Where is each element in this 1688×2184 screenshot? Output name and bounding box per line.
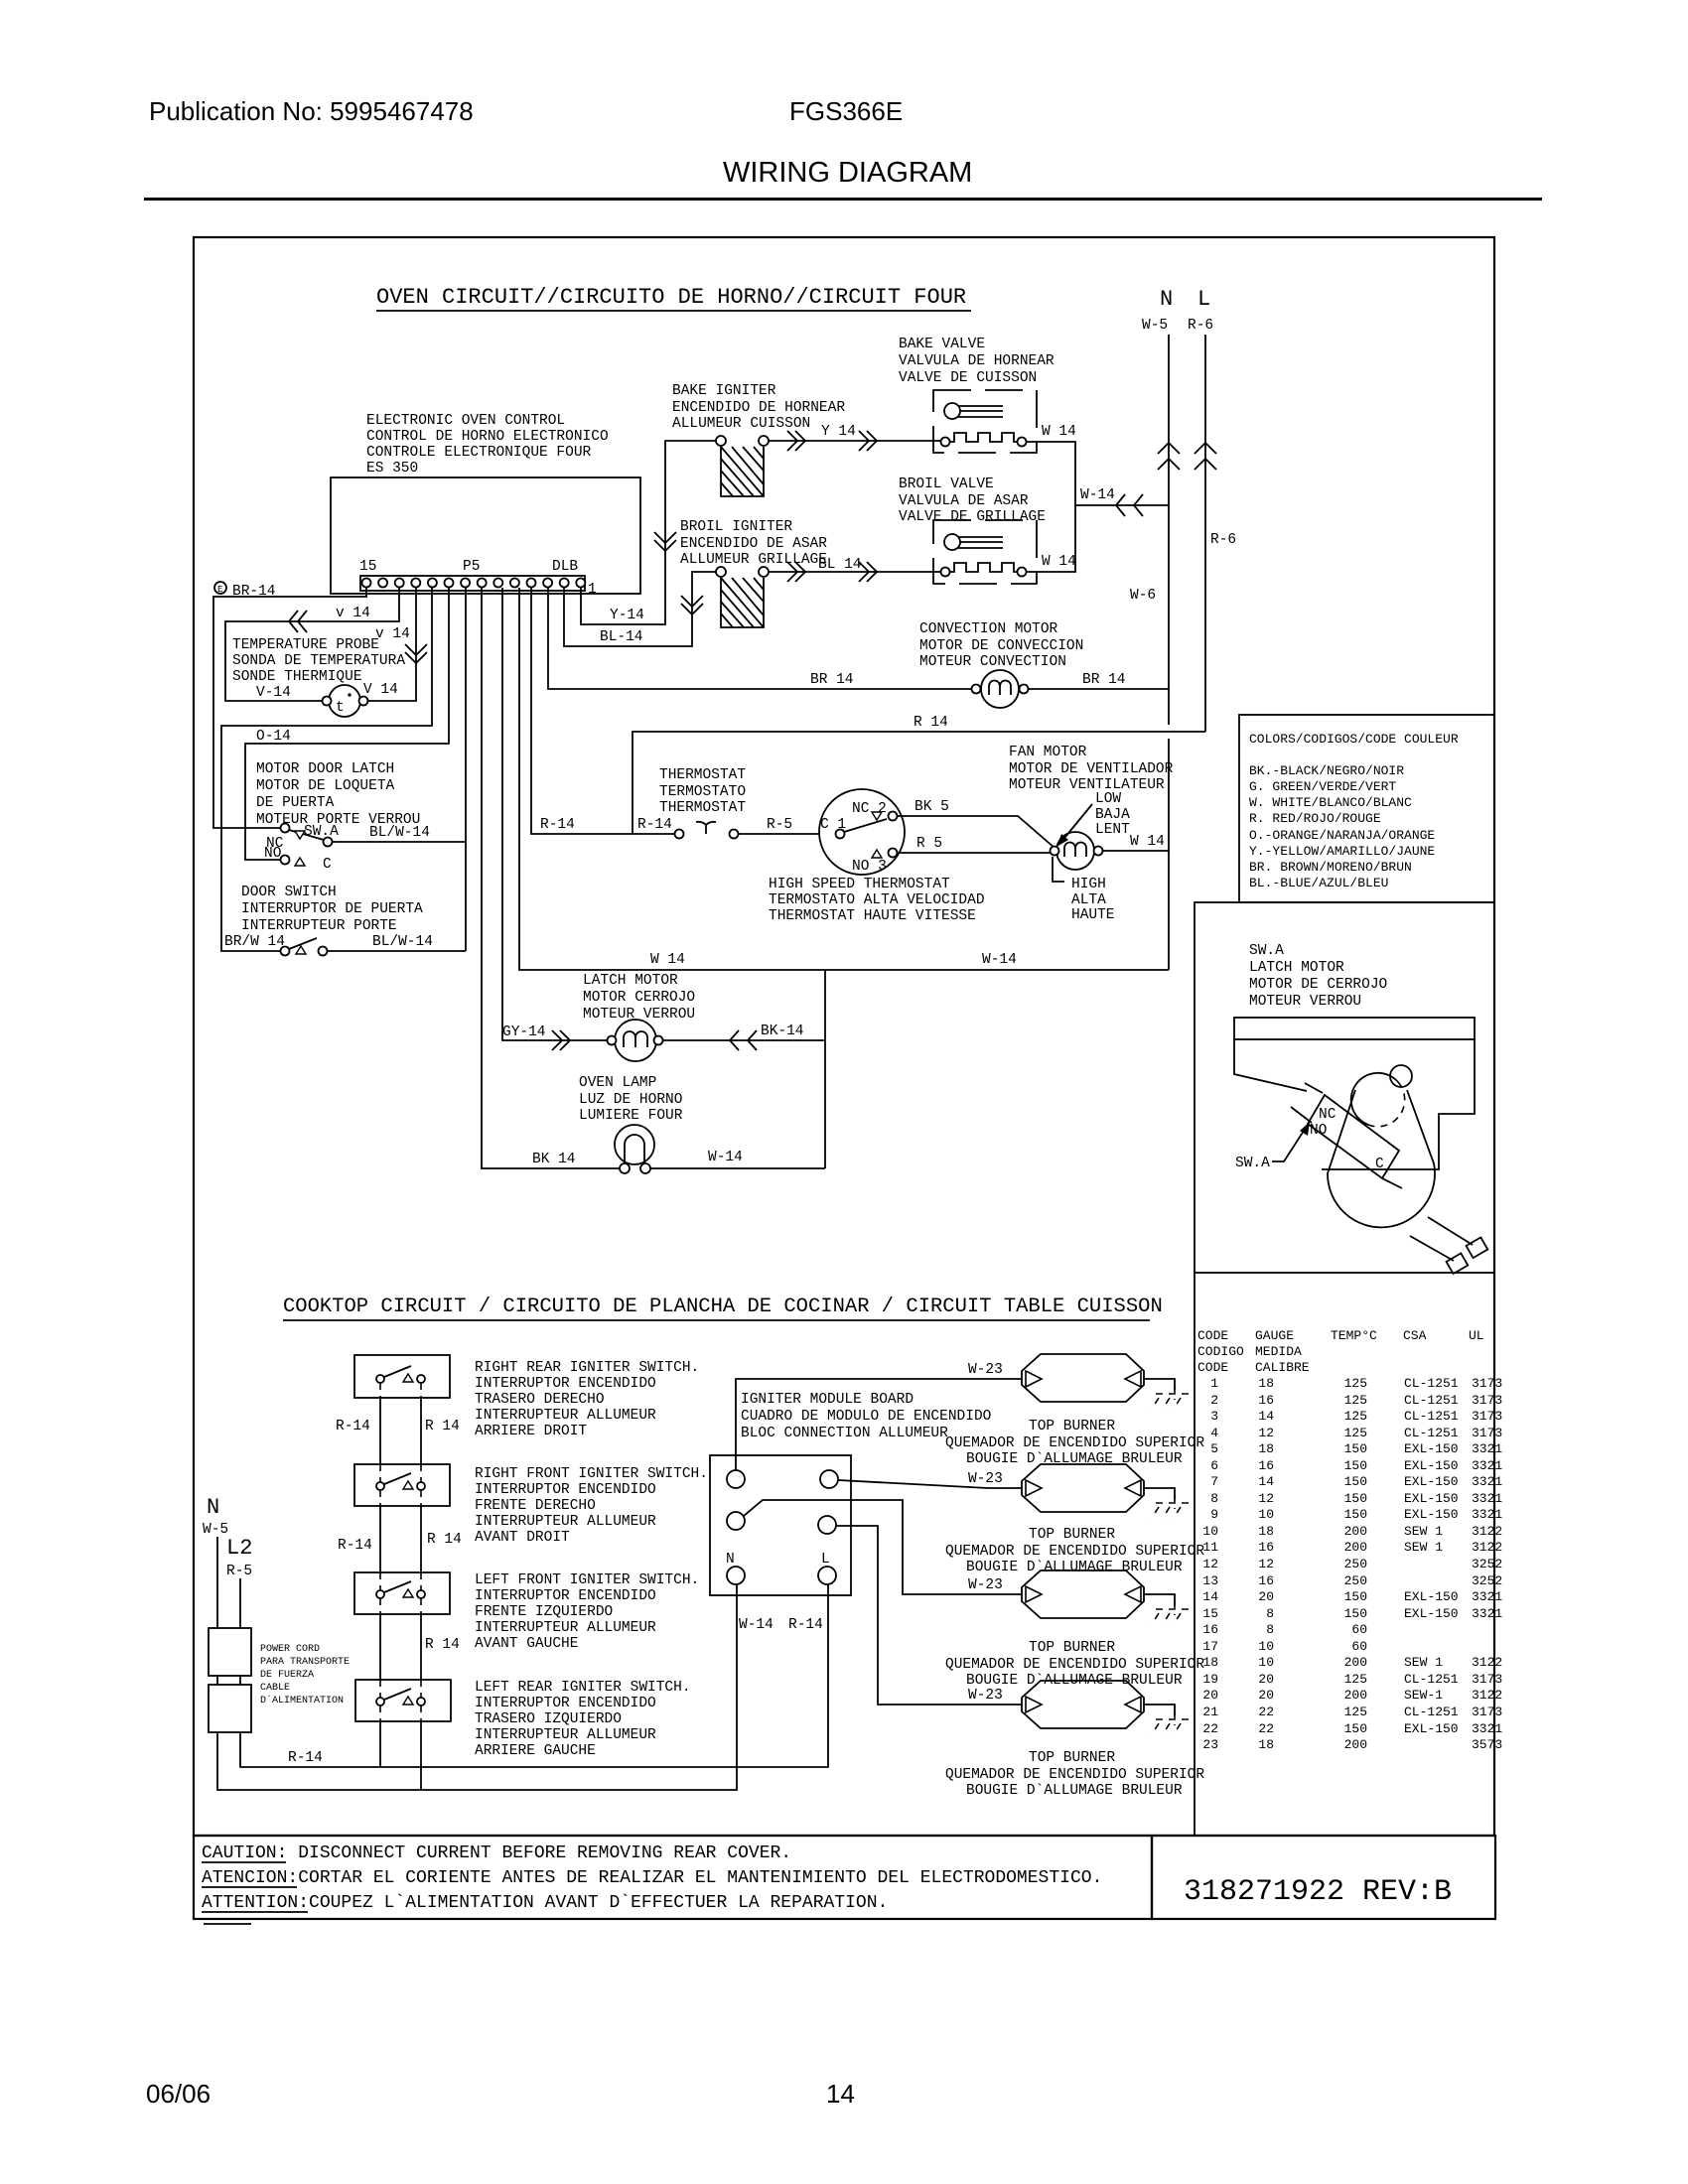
svg-text:125: 125 xyxy=(1344,1672,1367,1687)
svg-text:MOTEUR CONVECTION: MOTEUR CONVECTION xyxy=(919,654,1066,670)
svg-text:TERMOSTATO: TERMOSTATO xyxy=(659,784,746,800)
svg-text:BK 14: BK 14 xyxy=(532,1152,576,1167)
atencion underline xyxy=(202,1886,297,1888)
header rule xyxy=(144,198,1542,201)
svg-text:20: 20 xyxy=(1258,1688,1274,1703)
svg-text:W 14: W 14 xyxy=(1042,424,1076,440)
svg-text:BLOC CONNECTION ALLUMEUR: BLOC CONNECTION ALLUMEUR xyxy=(741,1426,948,1441)
burner 1 arrows xyxy=(1026,1371,1042,1387)
leader line HIGH xyxy=(1053,857,1064,882)
wire V-14 left to probe xyxy=(225,588,399,701)
svg-text:N: N xyxy=(207,1495,219,1520)
svg-text:SEW 1: SEW 1 xyxy=(1404,1524,1443,1539)
svg-text:CODE: CODE xyxy=(1197,1360,1228,1375)
svg-text:MOTOR CERROJO: MOTOR CERROJO xyxy=(583,990,695,1006)
svg-text:R 14: R 14 xyxy=(425,1637,460,1653)
svg-text:R-14: R-14 xyxy=(338,1538,372,1554)
svg-text:60: 60 xyxy=(1351,1622,1367,1637)
svg-text:318271922 REV:B: 318271922 REV:B xyxy=(1184,1875,1452,1909)
svg-text:20: 20 xyxy=(1258,1672,1274,1687)
bake valve dashed box xyxy=(933,390,1037,453)
svg-text:ATTENTION:COUPEZ L`ALIMENTATIO: ATTENTION:COUPEZ L`ALIMENTATION AVANT D`… xyxy=(202,1893,888,1913)
temperature probe body xyxy=(329,685,360,717)
svg-text:DLB: DLB xyxy=(552,559,578,575)
arrow chevrons down on bake igniter feed xyxy=(654,532,676,551)
svg-text:16: 16 xyxy=(1258,1573,1274,1588)
svg-text:15: 15 xyxy=(359,559,376,575)
svg-text:BROIL VALVE: BROIL VALVE xyxy=(899,477,994,492)
svg-text:14: 14 xyxy=(826,2079,855,2109)
wire O-14 to SW.A NO xyxy=(245,588,449,860)
wire branch vertical W-14 xyxy=(824,970,826,1168)
svg-text:W-6: W-6 xyxy=(1130,588,1156,604)
burner 2 octagon xyxy=(1022,1464,1144,1512)
svg-text:12: 12 xyxy=(1258,1426,1274,1440)
power cord connector upper xyxy=(209,1628,251,1676)
svg-text:250: 250 xyxy=(1344,1573,1367,1588)
svg-text:LUZ DE HORNO: LUZ DE HORNO xyxy=(579,1092,682,1108)
SW.A arm xyxy=(289,830,324,840)
svg-text:N: N xyxy=(1160,287,1173,312)
svg-text:BROIL IGNITER: BROIL IGNITER xyxy=(680,519,792,535)
door switch arm xyxy=(289,938,317,949)
svg-text:WIRING DIAGRAM: WIRING DIAGRAM xyxy=(723,157,972,189)
svg-text:TOP BURNER: TOP BURNER xyxy=(1029,1640,1115,1656)
svg-text:EXL-150: EXL-150 xyxy=(1404,1606,1459,1621)
burner 4 electrode wire xyxy=(1144,1705,1175,1715)
svg-text:BOUGIE D`ALLUMAGE BRULEUR: BOUGIE D`ALLUMAGE BRULEUR xyxy=(966,1560,1183,1575)
wire GY-14 from pin xyxy=(502,588,608,1040)
svg-text:COOKTOP CIRCUIT / CIRCUITO DE: COOKTOP CIRCUIT / CIRCUITO DE PLANCHA DE… xyxy=(283,1296,1163,1318)
wire W-14 lamp right xyxy=(650,1167,825,1169)
svg-text:LENT: LENT xyxy=(1095,822,1130,838)
svg-text:W-5: W-5 xyxy=(1142,318,1168,334)
right rear igniter switch SW1 xyxy=(376,1366,425,1398)
arrow from LOW to junction xyxy=(1060,804,1092,843)
svg-text:NO 3: NO 3 xyxy=(852,859,887,875)
svg-text:3173: 3173 xyxy=(1472,1426,1502,1440)
latch head circle solid arc xyxy=(1351,1073,1398,1125)
SW.A NO marker triangle xyxy=(295,858,305,866)
svg-text:N: N xyxy=(726,1552,735,1568)
svg-text:GAUGE: GAUGE xyxy=(1255,1328,1294,1343)
probe right terminal xyxy=(359,697,368,706)
svg-text:Y.-YELLOW/AMARILLO/JAUNE: Y.-YELLOW/AMARILLO/JAUNE xyxy=(1249,844,1435,859)
svg-text:BL-14: BL-14 xyxy=(600,629,643,645)
svg-text:EXL-150: EXL-150 xyxy=(1404,1474,1459,1489)
svg-text:CONTROL DE HORNO ELECTRONICO: CONTROL DE HORNO ELECTRONICO xyxy=(366,429,609,445)
svg-text:BR 14: BR 14 xyxy=(1082,672,1126,688)
broil igniter IG2 xyxy=(716,567,769,627)
svg-text:10: 10 xyxy=(1202,1524,1218,1539)
arrow chevrons on N wire xyxy=(1158,443,1180,470)
wire N W-5 lower xyxy=(1168,739,1170,970)
svg-text:200: 200 xyxy=(1344,1540,1367,1555)
svg-text:CABLE: CABLE xyxy=(260,1683,290,1694)
svg-text:150: 150 xyxy=(1344,1491,1367,1506)
latch switch body tilted xyxy=(1308,1095,1399,1178)
svg-text:THERMOSTAT: THERMOSTAT xyxy=(659,800,746,816)
arrow chevrons down on V-14 right xyxy=(405,644,427,663)
svg-text:1: 1 xyxy=(1210,1376,1218,1391)
svg-text:7: 7 xyxy=(1210,1474,1218,1489)
latch motor M3 xyxy=(608,1020,663,1061)
bake valve terminals and heater xyxy=(941,438,950,447)
svg-text:R-5: R-5 xyxy=(767,817,792,833)
wire L R-6 xyxy=(1204,335,1206,732)
arrow chevrons BL 14 first xyxy=(787,562,805,582)
svg-text:R-14: R-14 xyxy=(540,817,575,833)
svg-text:MOTOR DE VENTILADOR: MOTOR DE VENTILADOR xyxy=(1009,761,1174,777)
svg-text:SEW 1: SEW 1 xyxy=(1404,1540,1443,1555)
latch switch leader lines xyxy=(1291,1083,1323,1123)
svg-text:20: 20 xyxy=(1202,1688,1218,1703)
terminal strip P5 xyxy=(360,576,585,591)
right front igniter switch box xyxy=(354,1464,450,1506)
wire BR-14 from pin15 xyxy=(213,588,366,828)
svg-text:150: 150 xyxy=(1344,1721,1367,1736)
svg-text:CL-1251: CL-1251 xyxy=(1404,1393,1459,1408)
svg-text:LEFT FRONT IGNITER SWITCH.: LEFT FRONT IGNITER SWITCH. xyxy=(475,1572,699,1588)
svg-text:QUEMADOR DE ENCENDIDO SUPERIOR: QUEMADOR DE ENCENDIDO SUPERIOR xyxy=(945,1767,1204,1783)
svg-text:MOTEUR VERROU: MOTEUR VERROU xyxy=(1249,994,1361,1010)
svg-text:RIGHT REAR IGNITER SWITCH.: RIGHT REAR IGNITER SWITCH. xyxy=(475,1360,699,1376)
svg-text:QUEMADOR DE ENCENDIDO SUPERIOR: QUEMADOR DE ENCENDIDO SUPERIOR xyxy=(945,1544,1204,1560)
svg-text:INTERRUPTOR ENCENDIDO: INTERRUPTOR ENCENDIDO xyxy=(475,1588,656,1604)
svg-text:BOUGIE D`ALLUMAGE BRULEUR: BOUGIE D`ALLUMAGE BRULEUR xyxy=(966,1783,1183,1799)
svg-text:ALLUMEUR GRILLAGE: ALLUMEUR GRILLAGE xyxy=(680,552,827,568)
latch bracket top bar xyxy=(1234,1018,1475,1039)
svg-text:3252: 3252 xyxy=(1472,1573,1502,1588)
svg-text:R-14: R-14 xyxy=(637,817,672,833)
svg-text:CAUTION: DISCONNECT CURRENT BE: CAUTION: DISCONNECT CURRENT BEFORE REMOV… xyxy=(202,1843,791,1863)
svg-text:SEW 1: SEW 1 xyxy=(1404,1655,1443,1670)
svg-text:BL.-BLUE/AZUL/BLEU: BL.-BLUE/AZUL/BLEU xyxy=(1249,876,1388,890)
wire W-23 burner2 xyxy=(838,1480,1022,1488)
svg-text:3122: 3122 xyxy=(1472,1540,1502,1555)
svg-text:18: 18 xyxy=(1202,1655,1218,1670)
svg-text:3321: 3321 xyxy=(1472,1458,1502,1473)
svg-text:VALVULA DE ASAR: VALVULA DE ASAR xyxy=(899,493,1029,509)
svg-text:2: 2 xyxy=(1210,1393,1218,1408)
svg-text:FRENTE IZQUIERDO: FRENTE IZQUIERDO xyxy=(475,1604,613,1620)
svg-text:BAKE VALVE: BAKE VALVE xyxy=(899,337,985,352)
wire R-14 from pin xyxy=(531,588,675,834)
wire W-14 bottom bus xyxy=(519,588,1169,970)
svg-text:10: 10 xyxy=(1258,1507,1274,1522)
svg-text:ENCENDIDO DE HORNEAR: ENCENDIDO DE HORNEAR xyxy=(672,400,845,416)
svg-text:C: C xyxy=(323,857,332,873)
oven title underline xyxy=(376,310,971,312)
svg-text:QUEMADOR DE ENCENDIDO SUPERIOR: QUEMADOR DE ENCENDIDO SUPERIOR xyxy=(945,1657,1204,1673)
svg-text:MOTEUR VENTILATEUR: MOTEUR VENTILATEUR xyxy=(1009,777,1165,793)
svg-text:AVANT DROIT: AVANT DROIT xyxy=(475,1530,570,1546)
svg-text:TOP BURNER: TOP BURNER xyxy=(1029,1419,1115,1434)
svg-text:O.-ORANGE/NARANJA/ORANGE: O.-ORANGE/NARANJA/ORANGE xyxy=(1249,828,1435,843)
svg-text:3321: 3321 xyxy=(1472,1474,1502,1489)
svg-text:BL/W-14: BL/W-14 xyxy=(369,825,430,841)
svg-text:INTERRUPTOR ENCENDIDO: INTERRUPTOR ENCENDIDO xyxy=(475,1376,656,1392)
svg-text:INTERRUPTEUR ALLUMEUR: INTERRUPTEUR ALLUMEUR xyxy=(475,1727,656,1743)
svg-text:VALVULA DE HORNEAR: VALVULA DE HORNEAR xyxy=(899,353,1055,369)
svg-text:150: 150 xyxy=(1344,1458,1367,1473)
svg-text:Y-14: Y-14 xyxy=(610,608,644,623)
svg-text:150: 150 xyxy=(1344,1589,1367,1604)
svg-text:125: 125 xyxy=(1344,1376,1367,1391)
fan motor M2 xyxy=(1051,832,1103,870)
wire R-14 sw2 to sw3 left xyxy=(379,1506,381,1572)
svg-text:12: 12 xyxy=(1202,1557,1218,1571)
svg-text:ALLUMEUR CUISSON: ALLUMEUR CUISSON xyxy=(672,416,810,432)
svg-text:TERMOSTATO ALTA VELOCIDAD: TERMOSTATO ALTA VELOCIDAD xyxy=(769,892,985,908)
svg-text:BR/W 14: BR/W 14 xyxy=(224,934,285,950)
wire door switch to BL/W vertical xyxy=(327,950,466,952)
bake valve solenoid xyxy=(944,403,960,419)
svg-text:THERMOSTAT HAUTE VITESSE: THERMOSTAT HAUTE VITESSE xyxy=(769,908,976,924)
svg-text:R-14: R-14 xyxy=(788,1617,823,1633)
svg-text:MOTOR DE CONVECCION: MOTOR DE CONVECCION xyxy=(919,638,1083,654)
svg-text:SEW-1: SEW-1 xyxy=(1404,1688,1443,1703)
svg-text:D`ALIMENTATION: D`ALIMENTATION xyxy=(260,1694,344,1706)
svg-text:EXL-150: EXL-150 xyxy=(1404,1441,1459,1456)
svg-text:150: 150 xyxy=(1344,1474,1367,1489)
wire R 14 sw1 to sw2 right xyxy=(420,1398,422,1464)
burner 4 spark gap xyxy=(1152,1711,1191,1734)
svg-text:W-14: W-14 xyxy=(1080,487,1115,503)
svg-text:HIGH: HIGH xyxy=(1071,877,1106,892)
svg-text:INTERRUPTOR ENCENDIDO: INTERRUPTOR ENCENDIDO xyxy=(475,1482,656,1498)
svg-text:5: 5 xyxy=(1210,1441,1218,1456)
burner 1 electrode wire xyxy=(1144,1379,1175,1390)
wire BK 5 xyxy=(897,816,1055,848)
svg-text:SONDA DE TEMPERATURA: SONDA DE TEMPERATURA xyxy=(232,653,405,669)
wire gauge table divider xyxy=(1194,1273,1196,1836)
svg-text:BK-14: BK-14 xyxy=(761,1024,804,1039)
svg-text:LOW: LOW xyxy=(1095,791,1121,807)
svg-text:OVEN LAMP: OVEN LAMP xyxy=(579,1075,656,1091)
svg-text:L: L xyxy=(1197,287,1210,312)
svg-text:8: 8 xyxy=(1210,1491,1218,1506)
svg-text:CODIGO: CODIGO xyxy=(1197,1344,1244,1359)
svg-text:23: 23 xyxy=(1202,1737,1218,1752)
attention underline xyxy=(202,1911,308,1913)
svg-text:R 14: R 14 xyxy=(425,1419,460,1434)
svg-text:NC: NC xyxy=(1319,1107,1336,1123)
door switch contacts xyxy=(281,947,290,956)
svg-text:PARA TRANSPORTE: PARA TRANSPORTE xyxy=(260,1657,350,1668)
svg-text:150: 150 xyxy=(1344,1507,1367,1522)
svg-text:GY-14: GY-14 xyxy=(502,1024,546,1040)
svg-text:8: 8 xyxy=(1266,1606,1274,1621)
svg-text:ES 350: ES 350 xyxy=(366,461,418,477)
svg-text:W. WHITE/BLANCO/BLANC: W. WHITE/BLANCO/BLANC xyxy=(1249,795,1412,810)
right front igniter switch SW2 xyxy=(376,1464,425,1506)
wire BK 14 lamp left xyxy=(482,588,620,1168)
left rear igniter switch box xyxy=(355,1680,451,1721)
latch switch C lead xyxy=(1382,1178,1402,1188)
svg-text:INTERRUPTOR ENCENDIDO: INTERRUPTOR ENCENDIDO xyxy=(475,1696,656,1711)
svg-text:21: 21 xyxy=(1202,1705,1218,1719)
svg-text:1: 1 xyxy=(588,582,597,598)
svg-text:BK.-BLACK/NEGRO/NOIR: BK.-BLACK/NEGRO/NOIR xyxy=(1249,763,1404,778)
svg-text:125: 125 xyxy=(1344,1393,1367,1408)
svg-text:MEDIDA: MEDIDA xyxy=(1255,1344,1302,1359)
latch bracket outline xyxy=(1234,1039,1475,1169)
convection motor M1 xyxy=(972,670,1029,708)
svg-text:200: 200 xyxy=(1344,1688,1367,1703)
svg-text:15: 15 xyxy=(1202,1606,1218,1621)
svg-text:TOP BURNER: TOP BURNER xyxy=(1029,1527,1115,1543)
svg-text:16: 16 xyxy=(1258,1393,1274,1408)
svg-text:6: 6 xyxy=(1210,1458,1218,1473)
left rear igniter switch SW4 xyxy=(376,1680,425,1721)
svg-text:ALTA: ALTA xyxy=(1071,892,1106,908)
svg-text:OVEN CIRCUIT//CIRCUITO DE HORN: OVEN CIRCUIT//CIRCUITO DE HORNO//CIRCUIT… xyxy=(376,285,966,310)
wire BL/W-14 from SW.A common xyxy=(332,841,466,843)
main border frame xyxy=(194,237,1494,1836)
bake igniter IG1 xyxy=(716,436,769,496)
svg-text:O-14: O-14 xyxy=(256,729,291,745)
svg-text:3122: 3122 xyxy=(1472,1655,1502,1670)
svg-text:W-23: W-23 xyxy=(968,1688,1003,1704)
arrow chevrons on V-14 wire xyxy=(289,611,307,632)
svg-text:DOOR SWITCH: DOOR SWITCH xyxy=(241,885,337,900)
svg-text:10: 10 xyxy=(1258,1639,1274,1654)
wire Y 14 igniter to bake valve xyxy=(769,440,940,442)
svg-text:3321: 3321 xyxy=(1472,1441,1502,1456)
burner 3 electrode wire xyxy=(1144,1594,1175,1605)
svg-text:R 14: R 14 xyxy=(427,1532,462,1548)
svg-text:BAJA: BAJA xyxy=(1095,807,1130,823)
high speed thermostat S1 xyxy=(819,789,905,875)
svg-text:LEFT REAR IGNITER SWITCH.: LEFT REAR IGNITER SWITCH. xyxy=(475,1680,691,1696)
svg-text:BL/W-14: BL/W-14 xyxy=(372,934,433,950)
switch SW.A latch switch xyxy=(281,824,290,833)
svg-text:150: 150 xyxy=(1344,1606,1367,1621)
cooktop title underline xyxy=(283,1319,1150,1321)
arrow chevrons W-14 branch xyxy=(1116,494,1143,516)
svg-text:R. RED/ROJO/ROUGE: R. RED/ROJO/ROUGE xyxy=(1249,811,1381,826)
svg-text:RIGHT FRONT IGNITER SWITCH.: RIGHT FRONT IGNITER SWITCH. xyxy=(475,1466,708,1482)
svg-text:12: 12 xyxy=(1258,1557,1274,1571)
burner 4 octagon xyxy=(1022,1681,1144,1728)
svg-text:3321: 3321 xyxy=(1472,1507,1502,1522)
broil valve dashed box xyxy=(933,520,1037,584)
svg-text:125: 125 xyxy=(1344,1705,1367,1719)
svg-text:TEMPERATURE PROBE: TEMPERATURE PROBE xyxy=(232,637,379,653)
svg-text:R 14: R 14 xyxy=(914,715,948,731)
svg-text:BL 14: BL 14 xyxy=(818,557,862,573)
svg-text:CL-1251: CL-1251 xyxy=(1404,1409,1459,1424)
wire Y-14 from pin DLB xyxy=(581,441,716,624)
burner 3 spark gap xyxy=(1152,1601,1191,1624)
latch cam pear body xyxy=(1328,1090,1435,1227)
arrow chevrons BL 14 second xyxy=(859,562,877,582)
svg-text:EXL-150: EXL-150 xyxy=(1404,1491,1459,1506)
broil valve terminals and heater xyxy=(941,568,950,577)
burner 3 arrows xyxy=(1026,1586,1042,1602)
svg-text:3573: 3573 xyxy=(1472,1737,1502,1752)
svg-text:C: C xyxy=(1375,1157,1384,1172)
module board pins xyxy=(727,1470,745,1488)
svg-text:C 1: C 1 xyxy=(820,817,846,833)
svg-text:COLORS/CODIGOS/CODE COULEUR: COLORS/CODIGOS/CODE COULEUR xyxy=(1249,732,1459,747)
svg-text:200: 200 xyxy=(1344,1655,1367,1670)
svg-text:14: 14 xyxy=(1258,1474,1274,1489)
svg-text:INTERRUPTEUR PORTE: INTERRUPTEUR PORTE xyxy=(241,918,397,934)
wire sw4 right to W-14 bus xyxy=(420,1721,422,1790)
svg-text:3173: 3173 xyxy=(1472,1409,1502,1424)
color code legend box xyxy=(1239,715,1494,902)
power cord connector lower xyxy=(209,1685,251,1732)
svg-text:INTERRUPTOR DE PUERTA: INTERRUPTOR DE PUERTA xyxy=(241,901,423,917)
svg-text:SW.A: SW.A xyxy=(1249,943,1284,959)
svg-text:200: 200 xyxy=(1344,1524,1367,1539)
wire sw3 to sw4 left xyxy=(379,1614,381,1680)
oven control box ES350 xyxy=(331,478,640,594)
svg-text:CSA: CSA xyxy=(1403,1328,1427,1343)
svg-text:3321: 3321 xyxy=(1472,1606,1502,1621)
svg-text:FAN MOTOR: FAN MOTOR xyxy=(1009,745,1087,760)
svg-text:200: 200 xyxy=(1344,1737,1367,1752)
caution underline xyxy=(202,1861,286,1863)
wire W 14 fan to N xyxy=(1102,850,1169,852)
svg-text:13: 13 xyxy=(1202,1573,1218,1588)
svg-text:3321: 3321 xyxy=(1472,1589,1502,1604)
svg-text:V 14: V 14 xyxy=(363,682,398,698)
svg-text:MOTOR DE LOQUETA: MOTOR DE LOQUETA xyxy=(256,778,395,794)
svg-text:18: 18 xyxy=(1258,1441,1274,1456)
svg-text:t: t xyxy=(336,700,345,716)
wire R 5 xyxy=(897,852,1053,854)
wire R-14 from L line xyxy=(633,732,1205,834)
svg-text:3: 3 xyxy=(1210,1409,1218,1424)
svg-text:DE PUERTA: DE PUERTA xyxy=(256,795,335,811)
svg-text:W 14: W 14 xyxy=(650,952,685,968)
svg-text:CL-1251: CL-1251 xyxy=(1404,1672,1459,1687)
svg-text:BAKE IGNITER: BAKE IGNITER xyxy=(672,383,776,399)
svg-text:CODE: CODE xyxy=(1197,1328,1228,1343)
svg-text:BR 14: BR 14 xyxy=(810,672,854,688)
svg-text:3173: 3173 xyxy=(1472,1672,1502,1687)
svg-text:INTERRUPTEUR ALLUMEUR: INTERRUPTEUR ALLUMEUR xyxy=(475,1408,656,1424)
svg-text:19: 19 xyxy=(1202,1672,1218,1687)
svg-text:EXL-150: EXL-150 xyxy=(1404,1507,1459,1522)
wire BR 14 from pin to convection motor xyxy=(548,588,972,689)
igniter module board box xyxy=(710,1455,851,1595)
svg-text:22: 22 xyxy=(1202,1721,1218,1736)
svg-text:W-23: W-23 xyxy=(968,1577,1003,1593)
svg-text:18: 18 xyxy=(1258,1737,1274,1752)
oven lamp LP1 xyxy=(615,1125,654,1173)
svg-text:IGNITER MODULE BOARD: IGNITER MODULE BOARD xyxy=(741,1392,914,1408)
latch head circle dashed arc xyxy=(1368,1082,1405,1127)
arrow chevrons on L wire xyxy=(1195,443,1216,470)
svg-text:125: 125 xyxy=(1344,1409,1367,1424)
arrow chevrons down on broil igniter feed xyxy=(681,596,703,614)
svg-text:R-14: R-14 xyxy=(288,1750,323,1766)
svg-text:HAUTE: HAUTE xyxy=(1071,907,1115,923)
svg-text:CL-1251: CL-1251 xyxy=(1404,1376,1459,1391)
svg-text:v 14: v 14 xyxy=(375,626,410,642)
burner 1 octagon xyxy=(1022,1354,1144,1402)
svg-text:3122: 3122 xyxy=(1472,1524,1502,1539)
SW.A NC marker triangle xyxy=(295,831,305,839)
svg-text:CONVECTION MOTOR: CONVECTION MOTOR xyxy=(919,621,1058,637)
earth symbol circled E xyxy=(214,582,226,594)
svg-text:18: 18 xyxy=(1258,1376,1274,1391)
latch top bump circle xyxy=(1390,1065,1412,1087)
